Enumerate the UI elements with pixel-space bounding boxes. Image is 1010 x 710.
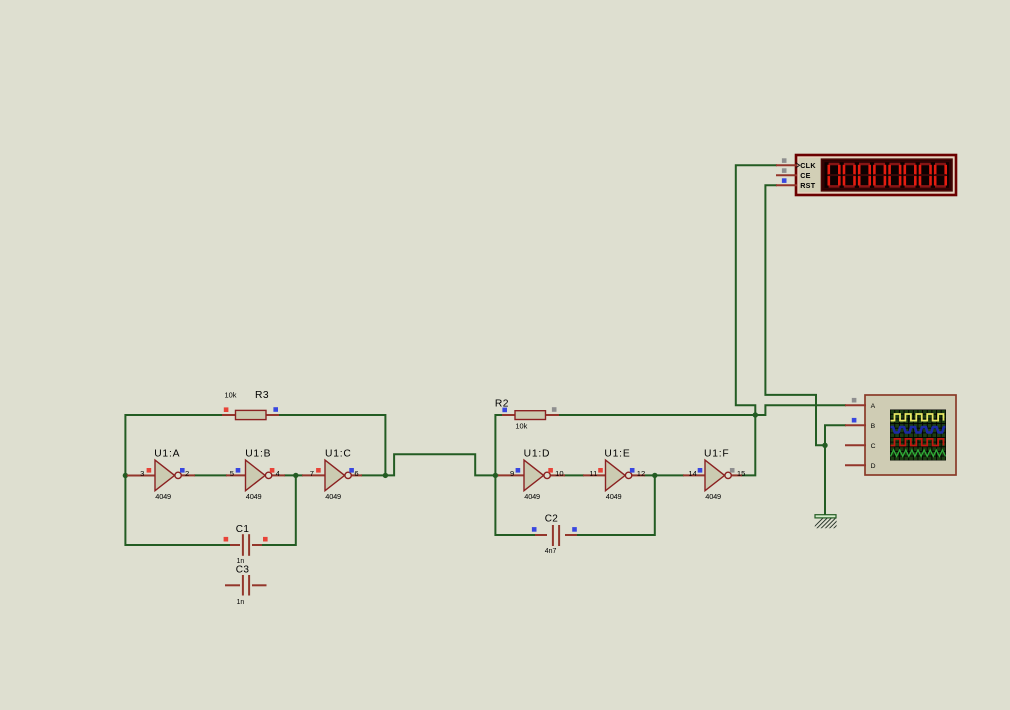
resistor R2 body	[515, 411, 546, 420]
svg-text:1n: 1n	[237, 599, 245, 606]
oscilloscope trace channel D green triangle wave	[891, 450, 946, 456]
svg-text:A: A	[871, 403, 876, 410]
pin U1:E output	[632, 474, 645, 476]
pin U1:A input	[127, 475, 155, 477]
counter digit 3 showing 0	[858, 163, 871, 188]
pin U1:D input	[498, 474, 524, 476]
svg-text:CE: CE	[800, 171, 811, 180]
inverter U1:F bubble	[725, 472, 731, 478]
oscilloscope pin D	[845, 464, 866, 466]
wire R2 right to junction	[545, 414, 755, 416]
svg-text:C1: C1	[236, 524, 250, 535]
counter digit 1 showing 0	[828, 163, 841, 188]
svg-text:B: B	[871, 423, 876, 430]
inverter U1:A body	[155, 460, 175, 491]
svg-text:4049: 4049	[155, 492, 171, 501]
pin U1:A output	[181, 474, 195, 476]
oscilloscope pin C	[845, 444, 866, 446]
pin U1:D output	[550, 474, 565, 476]
svg-text:4049: 4049	[705, 492, 721, 501]
wire U1:B output junction segment	[284, 474, 303, 476]
counter digit 7 showing 0	[919, 163, 932, 188]
inverter U1:C bubble	[345, 472, 351, 478]
inverter U1:E bubble	[625, 472, 631, 478]
inverter U1:D output pin marker	[548, 468, 553, 473]
pin U1:B output	[272, 474, 285, 476]
capacitor C2 plates	[552, 525, 554, 546]
svg-text:10k: 10k	[515, 421, 527, 430]
wire ground junction down to ground	[824, 445, 826, 515]
inverter U1:B bubble	[265, 472, 271, 478]
inverter U1:D body	[524, 460, 544, 491]
svg-text:U1:C: U1:C	[325, 449, 352, 460]
svg-text:10k: 10k	[225, 390, 237, 399]
oscilloscope trace channel C red square wave	[891, 439, 944, 446]
svg-text:4049: 4049	[246, 492, 262, 501]
inverter U1:F output pin marker	[730, 468, 735, 473]
capacitor C2 pin right	[565, 534, 577, 536]
svg-text:4n7: 4n7	[545, 548, 557, 555]
ground symbol	[812, 515, 844, 529]
counter digit 8 showing 0	[934, 163, 947, 188]
junction node U1:E output	[652, 473, 657, 478]
capacitor C1 pin left	[230, 544, 240, 546]
svg-text:2: 2	[185, 469, 189, 478]
svg-text:4: 4	[276, 469, 280, 478]
resistor R2 pin left	[502, 414, 516, 416]
oscilloscope pin B	[845, 424, 866, 426]
svg-text:11: 11	[589, 469, 597, 478]
counter timer marker gray CLK	[782, 158, 787, 163]
svg-text:U1:F: U1:F	[704, 449, 730, 460]
capacitor C3 pin right	[252, 584, 267, 586]
oscilloscope pin A	[845, 404, 866, 406]
svg-text:9: 9	[510, 469, 514, 478]
oscilloscope trace channel B blue wave	[891, 427, 946, 432]
inverter U1:E input pin marker	[598, 468, 603, 473]
svg-text:3: 3	[140, 469, 144, 478]
wire junction to oscilloscope channel A	[755, 405, 846, 415]
counter timer pin CLK	[776, 164, 797, 166]
wire ground junction to oscilloscope channel B	[825, 425, 846, 445]
junction node U1:C output	[383, 473, 388, 478]
resistor R2 pin right	[545, 414, 559, 416]
wire R3 right + vertical to U1:C output	[265, 415, 385, 475]
counter timer clock edge symbol	[796, 163, 800, 168]
counter digit 2 showing 0	[843, 163, 856, 188]
capacitor C1 marker red left	[224, 537, 229, 542]
counter timer display window	[822, 159, 953, 191]
inverter U1:E body	[606, 460, 626, 491]
wire C2 right + vertical to U1:E output	[576, 475, 655, 535]
inverter U1:D bubble	[544, 472, 550, 478]
capacitor C2 pin left	[535, 534, 547, 536]
junction node net to CLK and channel A	[753, 412, 758, 417]
inverter U1:D input pin marker	[516, 468, 521, 473]
wire C1 right + vertical to U1:B output	[260, 475, 296, 545]
svg-text:U1:D: U1:D	[524, 449, 551, 460]
oscilloscope screen with grid	[890, 410, 946, 461]
counter timer body	[796, 155, 956, 195]
svg-text:U1:A: U1:A	[154, 449, 180, 460]
svg-text:4049: 4049	[606, 492, 622, 501]
oscilloscope body	[865, 395, 956, 475]
svg-text:D: D	[871, 463, 876, 470]
junction node U1:B output	[293, 473, 298, 478]
inverter U1:B input pin marker	[236, 468, 241, 473]
svg-text:5: 5	[230, 469, 234, 478]
pin U1:C output	[351, 474, 362, 476]
counter digit 4 showing 0	[873, 163, 886, 188]
wire U1:D output to U1:E input	[564, 474, 584, 476]
pin U1:F output	[731, 474, 742, 476]
capacitor C3 pin left	[225, 584, 240, 586]
oscilloscope trace channel A yellow square wave	[891, 414, 944, 421]
svg-text:R3: R3	[255, 390, 269, 401]
counter timer marker blue RST	[782, 178, 787, 183]
resistor R3 pin right	[265, 414, 279, 416]
inverter U1:B body	[246, 460, 266, 491]
resistor R2 marker gray	[552, 407, 557, 412]
svg-text:6: 6	[354, 469, 358, 478]
wire U1:E output to U1:F input	[644, 474, 684, 476]
inverter U1:A output pin marker	[180, 468, 185, 473]
svg-text:RST: RST	[800, 181, 816, 190]
pin U1:C input	[302, 474, 325, 476]
wire counter RST to junction above ground	[765, 185, 825, 445]
capacitor C3 plates	[242, 575, 244, 596]
junction node U1:D input	[493, 473, 498, 478]
wire junction to counter CLK	[736, 165, 777, 415]
resistor R2 marker blue	[502, 408, 507, 413]
svg-text:U1:B: U1:B	[245, 449, 271, 460]
inverter U1:A bubble	[175, 472, 181, 478]
inverter U1:A input pin marker	[147, 468, 152, 473]
svg-text:CLK: CLK	[800, 161, 816, 170]
counter digit 5 showing 0	[888, 163, 901, 188]
svg-text:4049: 4049	[524, 492, 540, 501]
wire R3 left + left vertical + C1 bottom left	[125, 415, 236, 545]
wire R2 left + left vertical + C2 bottom left	[495, 415, 538, 535]
wire U1:C output to U1:D input with raised jog	[361, 454, 499, 475]
capacitor C1 plates	[242, 534, 244, 556]
counter timer pin RST	[776, 184, 797, 186]
resistor R3 body	[236, 410, 267, 419]
inverter U1:B output pin marker	[270, 468, 275, 473]
capacitor C1 marker red right	[263, 537, 268, 542]
capacitor C2 marker blue left	[532, 527, 537, 532]
inverter U1:F input pin marker	[698, 468, 703, 473]
svg-text:7: 7	[310, 469, 314, 478]
svg-text:10: 10	[555, 469, 563, 478]
wire U1:A output to U1:B input	[194, 474, 227, 476]
svg-text:C3: C3	[236, 564, 250, 575]
junction node U1:A input	[123, 473, 128, 478]
oscilloscope marker blue channel B	[852, 418, 857, 423]
oscilloscope marker gray channel A	[852, 398, 857, 403]
counter digit 6 showing 0	[904, 163, 917, 188]
resistor R3 marker red	[224, 407, 229, 412]
pin U1:F input	[683, 474, 705, 476]
svg-text:C2: C2	[545, 514, 559, 525]
counter timer marker gray CE	[782, 168, 787, 173]
svg-text:15: 15	[737, 469, 745, 478]
svg-text:12: 12	[637, 469, 645, 478]
pin U1:E input	[583, 474, 606, 476]
capacitor C2 marker blue right	[572, 527, 577, 532]
inverter U1:C input pin marker	[316, 468, 321, 473]
pin U1:B input	[226, 474, 246, 476]
inverter U1:F body	[705, 460, 725, 491]
counter timer pin CE	[776, 174, 797, 176]
svg-text:U1:E: U1:E	[604, 449, 630, 460]
junction node ground net	[822, 443, 827, 448]
capacitor C1 pin right	[252, 544, 262, 546]
inverter U1:C output pin marker	[349, 468, 354, 473]
inverter U1:E output pin marker	[630, 468, 635, 473]
svg-text:14: 14	[688, 469, 696, 478]
wire U1:F output up to junction	[741, 415, 755, 475]
resistor R3 marker blue	[273, 407, 278, 412]
resistor R3 pin left	[222, 414, 236, 416]
svg-text:C: C	[871, 443, 876, 450]
inverter U1:C body	[325, 460, 345, 491]
svg-text:4049: 4049	[325, 492, 341, 501]
